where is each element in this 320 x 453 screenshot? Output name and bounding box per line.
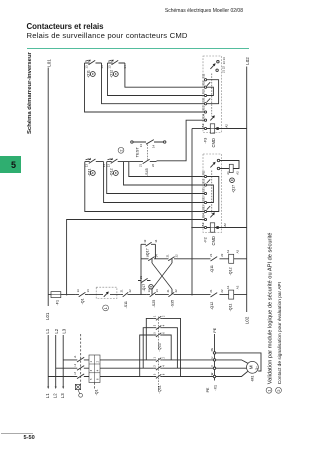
svg-text:-S45: -S45 <box>145 168 149 176</box>
svg-text:S34: S34 <box>201 213 205 218</box>
safety module arrow <box>104 293 107 297</box>
wire bottom rung to CMD2 S34 <box>67 220 205 295</box>
relay module CMD1 dashed enclosure <box>203 56 222 133</box>
wire L01 rail <box>47 68 49 307</box>
svg-text:1: 1 <box>153 357 156 359</box>
contactor Q11 pole3 <box>154 374 163 378</box>
Q12 mechanical link <box>158 317 160 350</box>
CMD2 internal jumper outer <box>207 177 219 212</box>
arrow L2 <box>55 387 57 390</box>
CMD1 terminal S12 <box>204 94 206 96</box>
terminal X1 U <box>213 359 215 361</box>
svg-text:2: 2 <box>276 389 281 392</box>
contact Q17 hold <box>141 242 155 246</box>
svg-text:1: 1 <box>153 315 156 317</box>
wire X1 to motor W <box>216 371 248 376</box>
svg-text:L2: L2 <box>54 328 59 333</box>
wire Q17 branch right <box>154 244 156 258</box>
wire S45 to CMD1 S34 <box>157 120 205 161</box>
running header <box>165 8 243 14</box>
svg-text:21: 21 <box>209 289 213 293</box>
mirror contact circle Q17 <box>230 178 235 183</box>
svg-text:21 22: 21 22 <box>222 66 226 73</box>
svg-text:S22: S22 <box>201 196 205 201</box>
CMD2 terminal S21 <box>204 192 206 194</box>
footer rule <box>1 432 33 435</box>
svg-text:-Q12: -Q12 <box>229 267 233 275</box>
wire junction to CMD2 S12 <box>124 162 205 185</box>
svg-text:L3: L3 <box>74 372 77 375</box>
breaker mechanical link <box>80 334 82 384</box>
svg-text:A2: A2 <box>223 223 227 227</box>
sidebar vertical caption <box>27 52 33 134</box>
svg-text:14: 14 <box>154 239 158 243</box>
footnote ref 1 <box>103 305 109 311</box>
svg-text:3: 3 <box>153 365 156 367</box>
contact Q12 aux top <box>108 60 125 64</box>
svg-text:Contact de signalisation pour: Contact de signalisation pour évaluation… <box>277 282 283 384</box>
svg-text:-Q12: -Q12 <box>110 168 114 176</box>
svg-text:22: 22 <box>220 253 224 257</box>
test switch contact <box>133 140 163 145</box>
svg-text:S12: S12 <box>201 178 205 183</box>
wire junction to CMD2 S11 <box>129 162 205 177</box>
junction node <box>191 294 193 296</box>
ground symbol <box>75 384 80 389</box>
CMD2 output contact terminals <box>217 159 219 161</box>
svg-text:2: 2 <box>162 357 165 359</box>
svg-text:13: 13 <box>147 289 151 292</box>
svg-text:-F1: -F1 <box>55 300 59 305</box>
terminal X1 V <box>213 367 215 369</box>
wire phase L1 <box>47 335 49 388</box>
subtitle <box>27 31 188 40</box>
CMD2 terminal S12 <box>204 184 206 186</box>
svg-text:S11: S11 <box>201 73 205 78</box>
breaker Q1 box <box>89 355 100 383</box>
wire crossover b <box>163 328 178 369</box>
svg-text:22: 22 <box>128 289 132 292</box>
svg-text:-M1: -M1 <box>251 376 255 382</box>
svg-text:21: 21 <box>120 289 124 292</box>
svg-text:L02: L02 <box>245 316 250 324</box>
svg-text:W: W <box>210 372 214 375</box>
wire Q1 out row3 <box>100 376 154 378</box>
svg-text:14: 14 <box>155 289 159 292</box>
svg-text:-F2: -F2 <box>202 237 207 243</box>
CMD1 internal jumper outer <box>207 80 219 104</box>
svg-text:S33: S33 <box>201 80 205 85</box>
wire phase L2 <box>55 335 57 388</box>
svg-text:5: 5 <box>153 373 156 375</box>
wire L02 rail <box>246 67 248 313</box>
svg-text:2: 2 <box>162 315 165 317</box>
mechanical interlock cross <box>152 263 172 289</box>
CMD2 terminal S22 <box>204 201 206 203</box>
coil Q11 <box>229 290 234 299</box>
mirror contact circle Q11 <box>90 72 95 77</box>
CMD1 terminal S33 <box>204 86 206 88</box>
svg-text:L3: L3 <box>61 328 66 333</box>
CMD2 terminal A1 <box>204 226 206 228</box>
CMD1 mechanical link <box>211 74 213 117</box>
test switch terminals <box>131 141 133 143</box>
page number 5-50 <box>24 435 35 441</box>
svg-text:13: 13 <box>84 65 88 69</box>
wire phase L3 <box>62 335 64 388</box>
svg-text:21: 21 <box>165 254 169 257</box>
svg-text:14: 14 <box>86 289 90 292</box>
wire tap L1 <box>48 376 89 378</box>
wire motor feed U <box>163 359 213 361</box>
CMD2 terminal S34 <box>204 218 206 220</box>
svg-text:L2: L2 <box>53 393 58 398</box>
svg-text:CMD: CMD <box>211 236 216 245</box>
CMD1 relay arrow <box>210 65 214 69</box>
wire Q11 left to CMD2 S33 <box>85 162 205 212</box>
contact Q12 aux mid <box>107 159 130 163</box>
button S25 start fwd <box>147 292 169 296</box>
svg-text:TEST: TEST <box>134 147 139 158</box>
svg-text:S21: S21 <box>201 187 205 192</box>
svg-text:L1: L1 <box>45 328 50 333</box>
svg-text:A1: A1 <box>201 223 205 227</box>
svg-text:PE: PE <box>210 348 214 352</box>
svg-text:S12: S12 <box>201 89 205 94</box>
wire Q11 left to CMD1 terminal S22 <box>85 63 205 112</box>
terminal X1 PE <box>213 352 215 354</box>
wire bridge up1 <box>146 318 153 360</box>
wire PE down <box>214 334 216 381</box>
svg-text:5: 5 <box>90 378 93 380</box>
wire crossover c <box>163 335 171 360</box>
svg-text:S11: S11 <box>201 170 205 175</box>
footnote 1 ref <box>266 387 272 393</box>
svg-text:PE: PE <box>206 387 210 392</box>
svg-text:L1: L1 <box>74 355 77 358</box>
svg-text:21: 21 <box>166 289 170 292</box>
svg-text:A2: A2 <box>224 124 228 128</box>
svg-text:-X1: -X1 <box>213 385 217 391</box>
wire motor feed V <box>163 367 213 369</box>
contact Q11 aux mid <box>85 159 104 163</box>
wire feed to CMD1 A1 <box>192 128 204 130</box>
arrow L3 <box>62 387 64 390</box>
svg-text:1: 1 <box>103 306 108 309</box>
button S11 stop <box>121 292 147 296</box>
svg-text:S34: S34 <box>201 113 205 118</box>
svg-text:-F3: -F3 <box>202 138 207 144</box>
svg-text:A1: A1 <box>226 171 230 175</box>
svg-text:-Q12: -Q12 <box>157 343 162 352</box>
coil Q17 <box>229 164 233 172</box>
svg-text:S33: S33 <box>201 205 205 210</box>
mirror contact circle <box>149 285 153 289</box>
motor M1 <box>247 361 259 373</box>
svg-text:-Q12: -Q12 <box>109 70 113 78</box>
svg-text:13 14: 13 14 <box>222 57 226 64</box>
svg-text:6: 6 <box>162 373 165 375</box>
CMD1 terminal S34 <box>204 119 206 121</box>
terminal X1 W <box>213 375 215 377</box>
svg-text:-Q17: -Q17 <box>142 284 146 292</box>
svg-text:5: 5 <box>153 332 156 334</box>
contactor Q11 pole2 <box>154 366 163 370</box>
svg-text:A1: A1 <box>226 285 230 289</box>
CMD1 terminal A1 <box>204 127 206 129</box>
svg-text:L1: L1 <box>45 393 50 398</box>
wire Q1 out row1 <box>100 359 154 361</box>
footnote 2 ref <box>276 387 282 393</box>
svg-text:4: 4 <box>162 324 165 326</box>
svg-text:L2: L2 <box>74 363 77 366</box>
breaker pole contact L2 <box>77 366 84 371</box>
svg-text:22: 22 <box>174 254 178 257</box>
contact Q12 interlock NC <box>211 293 218 297</box>
svg-text:22: 22 <box>220 289 224 293</box>
contact Q11 interlock NC <box>211 257 218 261</box>
svg-text:-Q11: -Q11 <box>86 70 90 78</box>
svg-text:3: 3 <box>153 324 156 326</box>
svg-text:-Q17: -Q17 <box>232 185 236 193</box>
svg-text:A1: A1 <box>201 124 205 128</box>
svg-text:13: 13 <box>145 254 149 257</box>
contact Q11 aux top <box>85 60 102 64</box>
svg-text:-S25: -S25 <box>152 300 156 308</box>
mirror contact circle <box>90 171 95 176</box>
svg-text:2: 2 <box>119 149 124 152</box>
Q11 mechanical link <box>158 358 160 391</box>
wire tap L3 <box>63 359 89 361</box>
svg-text:6: 6 <box>96 378 99 380</box>
svg-text:A1: A1 <box>226 249 230 253</box>
svg-text:PE: PE <box>213 327 217 332</box>
footnote ref 2 <box>118 147 124 153</box>
svg-text:3~: 3~ <box>255 366 259 370</box>
wire tap L2 <box>56 367 89 369</box>
wire bridge up3 <box>140 335 154 377</box>
contactor Q11 pole1 <box>154 358 163 362</box>
svg-text:A2: A2 <box>236 249 240 253</box>
wire vertical feed A1 rungs <box>191 129 193 295</box>
coil Q12 <box>229 254 234 263</box>
wire Q1 out row2 <box>100 367 154 369</box>
svg-text:-Q12: -Q12 <box>210 302 214 310</box>
title <box>27 22 104 31</box>
wire Q11 right to CMD2 S22 <box>104 162 205 203</box>
wire X1 to motor U <box>216 360 248 363</box>
svg-text:-S35: -S35 <box>170 300 174 308</box>
wire Q12 right to CMD1 terminal S33 <box>125 63 204 87</box>
svg-text:14: 14 <box>152 144 156 148</box>
svg-text:CMD: CMD <box>211 138 216 147</box>
fuse F1 <box>51 292 61 298</box>
svg-text:M: M <box>248 365 253 369</box>
wire Q12 left to CMD2 S21 <box>107 162 205 194</box>
CMD2 terminal S33 <box>204 210 206 212</box>
svg-text:-Q11: -Q11 <box>157 385 162 393</box>
svg-text:S22: S22 <box>201 105 205 110</box>
svg-text:L01: L01 <box>47 59 52 67</box>
svg-text:21: 21 <box>139 276 143 279</box>
svg-text:-Q1: -Q1 <box>80 298 84 304</box>
svg-text:L3: L3 <box>60 393 65 398</box>
fuse F2 on A1 <box>207 227 247 229</box>
arrow L1 <box>47 387 49 390</box>
mirror contact circle <box>113 171 118 176</box>
breaker pole contact L1 <box>77 374 84 379</box>
safety module dashed box <box>96 287 117 298</box>
CMD1 output contact terminals <box>217 61 219 63</box>
wire Q12 left to CMD1 terminal S12 <box>108 63 205 96</box>
svg-text:13: 13 <box>107 164 111 168</box>
junction node <box>66 294 68 296</box>
wire bridge up2 <box>143 328 153 369</box>
svg-text:-Q11: -Q11 <box>229 304 233 312</box>
svg-text:U: U <box>210 357 214 359</box>
CMD2 mechanical link <box>211 171 213 214</box>
wire feed to CMD2 A1 <box>192 227 204 229</box>
CMD1 terminal S11 <box>204 79 206 81</box>
relay module CMD2 dashed enclosure <box>203 154 222 233</box>
contactor Q12 pole1 <box>154 316 163 320</box>
header rule <box>27 48 249 49</box>
CMD2 relay arrow <box>210 164 214 168</box>
svg-text:V: V <box>210 365 214 367</box>
svg-text:1: 1 <box>267 389 272 392</box>
CMD2 internal contact slashes <box>207 179 210 209</box>
svg-text:3: 3 <box>90 369 93 371</box>
wire rung stop start <box>48 294 75 296</box>
svg-text:-S11: -S11 <box>124 301 128 308</box>
svg-text:22: 22 <box>151 163 155 167</box>
svg-text:4: 4 <box>96 369 99 371</box>
rung coil Q12 <box>141 258 247 260</box>
svg-text:13: 13 <box>85 164 89 168</box>
svg-text:14: 14 <box>154 254 158 257</box>
contact Q17 interlock <box>138 278 151 282</box>
wire X1 to motor V <box>216 367 247 369</box>
svg-text:1: 1 <box>90 360 93 362</box>
svg-text:13: 13 <box>107 65 111 69</box>
svg-text:2: 2 <box>96 360 99 362</box>
svg-text:21: 21 <box>209 253 213 257</box>
svg-text:S21: S21 <box>201 97 205 102</box>
wire CMD2 output loop <box>220 161 239 169</box>
svg-text:6: 6 <box>162 332 165 334</box>
svg-text:21: 21 <box>138 163 142 167</box>
svg-text:13: 13 <box>143 239 147 243</box>
CMD2 terminal S11 <box>204 175 206 177</box>
breaker pole contact L3 <box>77 357 84 362</box>
fuse F3 on A1 <box>207 128 247 130</box>
CMD2 internal jumper inner <box>207 185 214 203</box>
svg-text:L02: L02 <box>245 57 250 65</box>
svg-text:13: 13 <box>76 289 80 292</box>
CMD1 terminal S21 <box>204 103 206 105</box>
sidebar chapter tab 5 <box>0 156 21 173</box>
contact Q1 aux <box>76 292 89 296</box>
contactor Q12 pole3 <box>154 333 163 337</box>
svg-text:Validation par module logique: Validation par module logique de sécurit… <box>267 233 273 385</box>
button S35 start rev <box>168 292 210 296</box>
svg-text:A2: A2 <box>236 285 240 289</box>
switch S45 <box>130 159 157 163</box>
CMD1 terminal S22 <box>204 111 206 113</box>
wire PE to motor <box>216 353 261 371</box>
mirror contact circle Q12 <box>113 72 118 77</box>
svg-text:-Q1: -Q1 <box>94 389 98 395</box>
wire crossover a <box>163 318 181 376</box>
CMD1 internal jumper inner <box>207 87 214 95</box>
contactor Q12 pole2 <box>154 326 163 330</box>
svg-text:22: 22 <box>174 289 178 292</box>
svg-text:L01: L01 <box>45 312 50 320</box>
wire Q17 branch left <box>140 244 142 294</box>
svg-text:13: 13 <box>139 144 143 148</box>
contact slash <box>148 257 154 261</box>
svg-text:4: 4 <box>162 365 165 367</box>
contact slash <box>168 257 174 261</box>
wire Q11 right to CMD1 terminal S21 <box>102 63 205 104</box>
svg-text:-Q11: -Q11 <box>210 265 214 273</box>
svg-text:A2: A2 <box>236 171 240 175</box>
test mechanical link <box>147 144 149 159</box>
wire motor feed W <box>163 376 213 378</box>
CMD1 internal contact slashes <box>207 82 210 102</box>
